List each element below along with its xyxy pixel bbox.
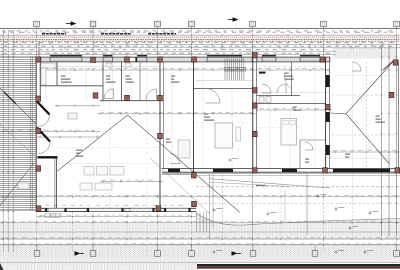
- stipple faint band to bottom edge: [0, 258, 400, 262]
- stair arrow: [225, 68, 244, 70]
- deck planter boxes: [18, 183, 29, 189]
- washbasins: [259, 97, 264, 103]
- stair hall wall x252.5-257: [252, 52, 254, 172]
- column at 160,136: [158, 133, 163, 138]
- converging driveway fan lines: [209, 179, 330, 188]
- column at 254.7,170.4: [252, 168, 257, 173]
- column at 395.5,62.5: [393, 60, 398, 65]
- door arc bath2: [277, 84, 286, 93]
- horizontal partition y85.5 kitchen: [40, 85, 103, 87]
- room labels (micro-text as strokes): [61, 75, 65, 77]
- dimension string row 5: [0, 54, 336, 56]
- far east open edge x398: [398, 60, 400, 172]
- column at 95.5,95.5: [93, 93, 98, 98]
- partition x121.5: [121, 62, 123, 101]
- partition x140: [139, 62, 141, 101]
- column at 254.7,134: [252, 131, 257, 136]
- south terrace edge wall (left wing): [36, 207, 196, 209]
- garage dashed horizontals: [332, 94, 394, 96]
- east spine wall x160: [159, 57, 161, 212]
- window in south wall: [213, 169, 233, 173]
- window lintel bar: [103, 55, 113, 57]
- staircase rail: [225, 68, 246, 72]
- column at 325,170.4: [323, 168, 328, 173]
- door arc office x170: [170, 154, 180, 164]
- red dash vertical at west wall top: [38, 43, 40, 58]
- short black bar y72: [259, 72, 266, 74]
- horizontal partition y100.5: [100, 100, 163, 102]
- bottom dark bar (road): [197, 264, 400, 269]
- deck diagonal 1: [0, 88, 36, 124]
- stipple bottom-left area to page bottom: [0, 263, 197, 270]
- right margin dimension verticals: [381, 44, 383, 236]
- south wall of right wing: [162, 168, 400, 170]
- partition x57 kitchen: [56, 62, 58, 86]
- terrace lines y173-175 right wing: [162, 172, 400, 174]
- black door/window chunks on east wall: [326, 75, 330, 87]
- bottom-left corner dark wedge: [0, 263, 4, 270]
- west bay door arc 1: [39, 115, 50, 127]
- column at 38.5,208.5: [36, 206, 41, 211]
- column at 38.2,98.7: [36, 96, 41, 101]
- door arc bath1: [262, 84, 271, 93]
- window jambs: [298, 57, 300, 62]
- grid bubble G top: [394, 21, 400, 28]
- door arc right wing small: [305, 142, 313, 150]
- window jambs: [205, 57, 207, 62]
- bottom bubble 93: [90, 245, 96, 256]
- property line thin full width: [0, 262, 400, 264]
- window in south wall: [333, 169, 390, 173]
- vertical construction/grid lines: [36, 29, 38, 57]
- red exterior wall hatch band: [0, 34, 400, 36]
- west bay: lower angled black wall: [37, 128, 50, 142]
- deck diagonal thick segment: [4, 92, 16, 104]
- door arc x150 hall: [146, 89, 157, 100]
- grid bubble E top: [250, 21, 256, 28]
- wall x193.5: [193, 57, 195, 178]
- window in south wall: [168, 169, 180, 173]
- column at 254.7,105.5: [252, 103, 257, 108]
- column at 327.6,107: [325, 104, 330, 109]
- column at 160,98: [158, 95, 163, 100]
- column at 93,59.8: [91, 57, 96, 62]
- bottom bubble 396.5: [394, 245, 400, 256]
- kitchen counter right room: [178, 140, 190, 158]
- section arrow mid top: [233, 17, 239, 22]
- column at 158.5,208.5: [156, 206, 161, 211]
- dashed line y186.8: [196, 186, 400, 188]
- dining table living: [215, 123, 233, 148]
- top datum line: [0, 28, 400, 30]
- column at 254.7,55.3: [252, 53, 257, 58]
- garage corner hatch top-right: [383, 61, 393, 70]
- column at 127,98: [125, 95, 130, 100]
- column at 160,59.5: [158, 57, 163, 62]
- column at 193.8,175.3: [191, 173, 196, 178]
- window lintel bar: [207, 55, 242, 57]
- grid bubble F top: [321, 21, 327, 28]
- column at 322.5,59.5: [320, 57, 325, 62]
- small fixture wc: [106, 63, 112, 67]
- fan dimension arrow: [256, 184, 266, 186]
- bottom bubble 191.5: [189, 245, 195, 256]
- door arc kitchen x108: [104, 89, 114, 99]
- staircase treads: [224, 59, 226, 81]
- bedroom wall x291.5: [291, 62, 293, 96]
- column at 38.2,59.5: [36, 57, 41, 62]
- left margin dimension verticals: [2, 30, 4, 252]
- exterior steps below hall door: [196, 212, 198, 232]
- bottom bubble 157.5: [155, 245, 161, 256]
- stipple below driveway curve right side: [196, 213, 400, 239]
- dark spec text runs above band: [42, 33, 66, 35]
- small room wall y140 right: [300, 139, 326, 141]
- column at 38.2,168.5: [36, 166, 41, 171]
- hall wall y88.5: [194, 88, 253, 90]
- bottom bubble 253: [250, 245, 256, 256]
- garage stub line: [330, 112, 346, 115]
- window jambs: [260, 57, 262, 62]
- interior dimension strings: [40, 69, 330, 71]
- dashes y203 right: [196, 202, 400, 204]
- partition x103: [102, 62, 104, 101]
- big arc middle room: [284, 74, 292, 90]
- bottom section arrow mid: [232, 251, 238, 256]
- roof projection diagonal left leg: [58, 115, 128, 171]
- west exterior wall: [35, 57, 37, 212]
- column at 194,204: [192, 201, 197, 206]
- left wooden deck hatch field: [0, 58, 36, 210]
- level cross marks: [212, 209, 215, 211]
- living west wall below bay: [55, 157, 57, 212]
- deck diagonal 2: [0, 124, 36, 157]
- column at 127,59.5: [125, 57, 130, 62]
- wall y103.5 bedroom: [257, 103, 326, 105]
- exterior wall top (north) outer line: [36, 56, 330, 58]
- window in south wall: [282, 169, 297, 173]
- grid bubble A top: [34, 21, 40, 28]
- bottom bubble 37: [34, 245, 40, 256]
- extra faint construction lines: [41, 66, 160, 68]
- kitchen counter along top-left: [41, 63, 56, 68]
- right terrace verticals: [209, 174, 211, 239]
- grid bubble B top: [90, 21, 96, 28]
- red line inside dark bar: [197, 266, 400, 268]
- top text row extra: [2, 30, 5, 32]
- terrace wall posts: [45, 208, 47, 212]
- grid bubble D top: [189, 21, 195, 28]
- office wall y172->174 connection x162-196: [162, 174, 196, 176]
- column at 391.5,95: [389, 92, 394, 97]
- column at 397.3,170.4: [395, 168, 400, 173]
- deck bottom edge: [0, 210, 36, 212]
- grid bubble C top: [155, 21, 161, 28]
- secondary diagonal: [150, 158, 210, 214]
- dimension string row 2: [0, 43, 400, 45]
- driveway curve: [196, 213, 400, 225]
- window jambs: [135, 57, 137, 62]
- west bay door arc 2: [39, 142, 50, 154]
- door arc top-right room: [352, 62, 361, 71]
- bay bottom thick wall: [38, 156, 58, 158]
- window lintel bar: [137, 55, 147, 57]
- low table pair: [80, 183, 92, 190]
- window lintel bar: [262, 55, 276, 57]
- column at 194,59.5: [192, 57, 197, 62]
- column at 38.2,131: [36, 128, 41, 133]
- deck inner edge double line: [30, 57, 32, 211]
- bed right bedroom: [281, 119, 297, 146]
- stipple band above garage top-right: [333, 48, 397, 59]
- wall x300 lower: [299, 140, 301, 169]
- deck top edge: [0, 55, 36, 57]
- door arc living big x212: [206, 89, 221, 103]
- garage diagonal upper: [346, 60, 395, 114]
- west bay: upper angled black wall: [37, 102, 50, 115]
- dimension string row 3: [0, 47, 400, 49]
- window jambs: [48, 57, 50, 62]
- window lintel bar: [50, 55, 82, 57]
- bottom section arrow left: [75, 251, 81, 256]
- terrace steps: [45, 214, 50, 218]
- stipple band full width lower: [0, 245, 400, 258]
- window lintel bar: [300, 55, 320, 57]
- dimension string row 1 (top): [0, 35, 400, 37]
- window jambs: [101, 57, 103, 62]
- bottom bubble 315: [312, 245, 318, 256]
- solid wall chunks north wall: [41, 57, 50, 62]
- east wall of house x327.5: [325, 57, 327, 169]
- deck diagonal 3 (steep): [0, 163, 34, 206]
- sofa row living: [84, 167, 94, 176]
- section arrow left top: [71, 21, 77, 26]
- stipple band full width mid-bottom: [0, 223, 400, 239]
- wall y95.5 right of stairs: [257, 95, 300, 97]
- window sill lines in north wall: [50, 58, 82, 60]
- dimension string row 4: [0, 50, 336, 52]
- exterior wall top inner line: [36, 61, 330, 63]
- column at 254.7,90.3: [252, 88, 257, 93]
- garage diagonal lower: [346, 114, 390, 164]
- roof projection diagonal right leg: [128, 115, 241, 213]
